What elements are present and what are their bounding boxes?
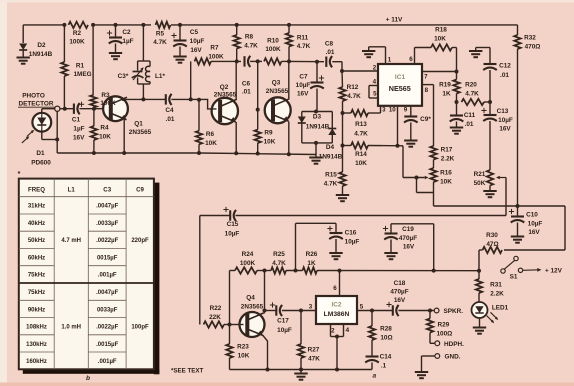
label Q3 2N3565: [266, 80, 289, 96]
svg-text:C15: C15: [227, 221, 239, 228]
svg-text:C18: C18: [394, 280, 406, 287]
svg-text:b: b: [86, 375, 90, 382]
label Q2 2N3565: [214, 84, 237, 99]
label R7 100K: [208, 45, 224, 61]
svg-text:4.7K: 4.7K: [244, 43, 258, 50]
svg-text:10K: 10K: [238, 353, 250, 360]
svg-text:2N3565: 2N3565: [214, 92, 237, 99]
svg-text:+ 11V: + 11V: [386, 17, 403, 24]
svg-text:1µF: 1µF: [73, 126, 84, 133]
wire: Q4 emitter down: [263, 335, 268, 370]
label C10 10uF 16V: [526, 212, 542, 237]
label C17 10uF: [277, 318, 292, 335]
wire: R7 to Q2 collector node: [211, 59, 241, 63]
svg-text:6: 6: [409, 56, 413, 63]
wire: Q1 collector line: [123, 98, 166, 100]
svg-text:4: 4: [373, 79, 377, 86]
wire: Q3 emitter to ground rail: [288, 122, 290, 154]
svg-text:3: 3: [309, 304, 313, 311]
resistor R28: [369, 311, 375, 356]
label L1*: [155, 73, 165, 80]
svg-text:40kHz: 40kHz: [28, 221, 45, 227]
pin 3 of IC1: [382, 107, 386, 114]
svg-text:R26: R26: [306, 251, 318, 258]
wire: LED to ground: [479, 318, 481, 327]
label R28 10 ohm: [380, 326, 392, 342]
wire: R11 to collector node: [288, 47, 290, 62]
wire: C19 to ground: [390, 240, 392, 253]
label R21 50K: [474, 171, 486, 187]
transistor Q3: [265, 97, 291, 123]
resistor R22: [204, 321, 232, 327]
svg-text:10µF: 10µF: [498, 117, 513, 124]
svg-text:10µF: 10µF: [190, 38, 205, 45]
svg-text:PHOTO: PHOTO: [22, 93, 45, 100]
wire: Q1 collector up: [122, 99, 124, 101]
wire: rail to R11: [288, 25, 290, 33]
wire: C10 node line: [434, 206, 566, 250]
wire: Q4 collector up: [263, 271, 267, 314]
svg-text:R23: R23: [237, 344, 249, 351]
svg-text:2.2K: 2.2K: [490, 291, 504, 298]
label R5 4.7K: [153, 31, 167, 47]
wire: R10 to Q3 collector node: [282, 59, 292, 63]
resistor R19: [453, 72, 459, 105]
ground below C11: [450, 128, 463, 134]
label R10 100K: [265, 38, 281, 54]
label R32 470 ohm: [524, 35, 540, 51]
resistor R9: [255, 110, 261, 154]
svg-text:75kHz: 75kHz: [28, 273, 45, 279]
diode D3: [298, 117, 306, 124]
wire: C1 to Q1 base: [80, 107, 103, 111]
component value table (FREQ / L1 / C3 / C9): [19, 179, 160, 375]
label PHOTO DETECTOR: [18, 93, 55, 108]
svg-text:9: 9: [404, 107, 408, 114]
label R25 4.7K: [272, 251, 286, 267]
ground below R21: [483, 191, 496, 197]
label C2 1uF: [122, 29, 133, 45]
svg-text:R1: R1: [76, 63, 85, 70]
capacitor C9: [404, 117, 418, 123]
resistor R3: [90, 95, 96, 108]
svg-text:D4: D4: [326, 144, 335, 151]
capacitor C12: [483, 64, 497, 70]
diode D2: [19, 44, 27, 51]
svg-text:16V: 16V: [528, 229, 540, 236]
wire: C11 to ground: [456, 122, 458, 128]
light arrows into D1: [22, 130, 34, 143]
wire: R14 line to pot wiper: [368, 144, 425, 180]
capacitor C15: [223, 207, 236, 221]
R16 wiper arrow: [417, 176, 434, 193]
svg-text:10K: 10K: [264, 139, 276, 146]
wire: rail to R3: [92, 25, 94, 95]
resistor R10: [264, 58, 282, 64]
svg-text:R17: R17: [441, 147, 453, 154]
svg-text:C14: C14: [380, 354, 392, 361]
svg-text:10K: 10K: [355, 160, 367, 167]
label C4 .01: [165, 107, 174, 123]
svg-text:Q1: Q1: [134, 121, 143, 128]
capacitor C11: [450, 102, 464, 122]
label C9*: [420, 116, 431, 123]
svg-text:47Ω: 47Ω: [486, 241, 498, 248]
capacitor C14: [365, 357, 379, 363]
svg-text:R9: R9: [264, 130, 273, 137]
ground below amplifier: [294, 374, 307, 380]
svg-text:.1: .1: [381, 363, 387, 370]
ground at pin 1: [362, 47, 375, 57]
svg-text:R28: R28: [380, 326, 392, 333]
resistor R30: [479, 247, 565, 253]
svg-text:D3: D3: [313, 114, 322, 121]
svg-text:+ 12V: + 12V: [545, 268, 563, 275]
wire: C13 to R21: [489, 121, 491, 170]
pin 2 of IC1: [342, 65, 378, 72]
svg-text:10µF: 10µF: [345, 239, 360, 246]
pin 2 and pin 4 of IC2: [331, 324, 350, 370]
label R8 4.7K: [244, 34, 258, 50]
svg-text:C3: C3: [103, 187, 111, 194]
resistor R2: [69, 22, 89, 28]
wire: supply line to switch: [317, 269, 479, 273]
label Q4 2N3565: [241, 295, 264, 311]
svg-text:.01: .01: [500, 72, 509, 79]
wire: C2 to ground: [115, 44, 117, 53]
svg-text:10µF: 10µF: [296, 82, 311, 89]
label Q1 2N3565: [129, 121, 152, 137]
svg-text:R32: R32: [524, 35, 536, 42]
svg-text:16V: 16V: [394, 297, 406, 304]
svg-text:C6: C6: [242, 81, 251, 88]
svg-text:LM386N: LM386N: [324, 311, 350, 318]
label R11 4.7K: [297, 35, 311, 51]
label R6 10K: [205, 131, 217, 147]
svg-text:C11: C11: [464, 112, 476, 119]
pin 5 of IC2: [357, 304, 393, 313]
svg-text:R8: R8: [245, 34, 254, 41]
svg-text:R2: R2: [73, 30, 82, 37]
svg-text:C9: C9: [136, 187, 144, 194]
label R16 10K: [440, 170, 452, 186]
svg-text:1.0 mH: 1.0 mH: [61, 325, 81, 331]
wire: C4 to Q2 base: [171, 97, 216, 109]
svg-text:R31: R31: [490, 282, 502, 289]
svg-text:Q4: Q4: [246, 295, 255, 302]
resistor R8: [234, 35, 240, 49]
wire: C19 rail: [391, 224, 434, 271]
svg-text:R27: R27: [308, 347, 320, 354]
svg-text:16V: 16V: [403, 244, 415, 251]
wire: R32 to C10 node: [516, 49, 520, 208]
pin 9 of IC1: [404, 106, 411, 116]
terminal HDPH: [435, 341, 464, 348]
label C5 10uF 16V: [190, 29, 205, 54]
svg-text:1N914B: 1N914B: [29, 51, 53, 58]
wire: rail to R8: [236, 25, 238, 35]
label C11 .01: [464, 112, 476, 128]
wire: rail to D2: [22, 25, 24, 43]
resistor R14: [341, 113, 369, 149]
pin 3 of IC2: [309, 304, 313, 311]
svg-text:75kHz: 75kHz: [28, 290, 45, 296]
svg-text:470µF: 470µF: [390, 289, 408, 296]
svg-text:4.7K: 4.7K: [465, 91, 479, 98]
svg-text:100K: 100K: [69, 39, 85, 46]
label R30 47 ohm: [486, 232, 498, 248]
label R22 22K: [209, 305, 222, 321]
svg-text:R22: R22: [210, 305, 222, 312]
svg-text:10: 10: [389, 107, 396, 114]
wire: C8 to pin2 node: [332, 62, 344, 73]
svg-text:2.2K: 2.2K: [441, 156, 455, 163]
label a: [372, 373, 376, 380]
svg-text:220pF: 220pF: [131, 238, 149, 244]
wire: Q3 collector up: [288, 61, 290, 99]
svg-text:*SEE TEXT: *SEE TEXT: [171, 368, 204, 375]
resistor R25: [271, 267, 286, 273]
svg-text:4.7 mH: 4.7 mH: [61, 238, 81, 244]
label R24 100K: [240, 251, 256, 267]
capacitor C10: [509, 206, 524, 223]
svg-text:R12: R12: [347, 84, 359, 91]
potentiometer R21: [487, 170, 493, 191]
svg-text:Q3: Q3: [272, 80, 281, 87]
svg-text:.0047µF: .0047µF: [96, 204, 118, 210]
wire: C14 to bottom line: [371, 363, 373, 370]
wire: R25/R26 node to C16: [296, 223, 337, 270]
svg-text:16V: 16V: [190, 47, 202, 54]
svg-text:47K: 47K: [308, 356, 320, 363]
label R17 2.2K: [441, 147, 455, 163]
wire: R7 feedback drop: [190, 61, 192, 99]
svg-text:IC2: IC2: [332, 302, 342, 309]
label C13 10uF 16V: [497, 108, 513, 133]
pin 10 of IC1: [389, 106, 398, 146]
svg-text:C17: C17: [277, 318, 289, 325]
svg-text:10Ω: 10Ω: [380, 335, 392, 342]
wire: C9 to ground: [410, 123, 412, 141]
svg-text:100Ω: 100Ω: [437, 331, 453, 338]
svg-text:3: 3: [382, 107, 386, 114]
wire: C7 to limiter: [314, 89, 318, 114]
ground below C10: [511, 237, 524, 243]
label C6 .01: [242, 81, 251, 96]
ground below C16: [329, 253, 342, 259]
capacitor C19: [383, 226, 398, 240]
svg-text:470Ω: 470Ω: [525, 44, 541, 51]
capacitor C6: [245, 56, 251, 67]
svg-text:a: a: [372, 373, 376, 380]
wire: bottom ground line: [230, 368, 373, 374]
label C18 470uF 16V: [390, 280, 408, 304]
wire: D1 top to input line: [41, 109, 43, 113]
svg-text:C8: C8: [325, 41, 334, 48]
svg-text:31kHz: 31kHz: [28, 204, 45, 210]
label R19 1K: [439, 82, 451, 98]
label C15 10uF: [225, 221, 240, 238]
svg-text:1N914B: 1N914B: [306, 124, 330, 131]
wire: C12 to R20 node: [489, 70, 491, 102]
svg-text:.01: .01: [166, 116, 175, 123]
svg-text:10K: 10K: [440, 179, 452, 186]
svg-text:L1*: L1*: [155, 73, 165, 80]
svg-text:50kHz: 50kHz: [28, 238, 45, 244]
label C19 470uF 16V: [399, 226, 417, 251]
resistor R7: [195, 58, 212, 64]
switch S1: [501, 256, 523, 273]
svg-text:60kHz: 60kHz: [28, 256, 45, 262]
svg-text:5: 5: [360, 304, 364, 311]
svg-text:C10: C10: [526, 212, 538, 219]
wire: input line to C1: [42, 107, 73, 111]
svg-text:R16: R16: [440, 170, 452, 177]
svg-text:10µF: 10µF: [277, 327, 292, 334]
pin 1 of IC1: [369, 47, 392, 64]
label R1 1MEG: [73, 63, 91, 79]
ground below C19: [384, 253, 397, 259]
resistor R15: [339, 146, 345, 195]
svg-text:C3*: C3*: [118, 73, 129, 80]
svg-text:C16: C16: [345, 230, 357, 237]
wire: R13 to pin 3: [368, 106, 381, 113]
wire: collector node to C8: [289, 60, 324, 64]
wire: rail to R1: [63, 25, 65, 62]
terminal SPKR: [434, 308, 463, 315]
wire: R18 to pin6/pin7: [415, 48, 457, 72]
svg-text:10K: 10K: [205, 140, 217, 147]
svg-text:16V: 16V: [73, 135, 85, 142]
svg-text:R6: R6: [206, 131, 215, 138]
wire: R20 to C12/C13 column: [484, 100, 492, 104]
wire: C10 to ground: [517, 223, 519, 237]
pin 8 of IC1: [422, 85, 434, 146]
resistor R31: [476, 271, 482, 303]
wire: limiter to ground: [315, 143, 317, 157]
label R4 10K: [99, 125, 111, 141]
svg-text:R30: R30: [486, 232, 498, 239]
svg-text:C12: C12: [499, 63, 511, 70]
svg-text:R18: R18: [435, 27, 447, 34]
wire: D2 to ground: [22, 50, 24, 57]
label R20 4.7K: [465, 82, 479, 98]
svg-text:D2: D2: [37, 42, 46, 49]
svg-text:R15: R15: [325, 172, 337, 179]
diode D4: [328, 129, 336, 136]
resistor R11: [286, 33, 292, 47]
wire: rail to tank: [138, 25, 150, 61]
pin 6 of IC1: [409, 48, 414, 65]
pin 7 of IC1: [422, 70, 459, 81]
label R27 47K: [308, 347, 321, 363]
capacitor C1: [74, 102, 84, 115]
label b: [86, 375, 90, 382]
wire: R3 to base node: [93, 108, 95, 109]
svg-text:.01: .01: [242, 89, 251, 96]
svg-text:NE565: NE565: [389, 84, 411, 93]
wire: R8 to collector node: [236, 49, 238, 62]
wire: limiter loop: [302, 112, 333, 145]
terminal GND: [435, 354, 461, 361]
label R18 10K: [434, 27, 447, 43]
label D3 1N914B: [306, 114, 330, 131]
ground above C12: [469, 48, 482, 58]
label C16 10uF: [345, 230, 360, 246]
svg-text:SPKR.: SPKR.: [444, 308, 464, 315]
R21 wiper arrow: [496, 176, 506, 216]
label D1 PD600: [31, 150, 51, 167]
wire: R30 to switch node: [477, 250, 481, 273]
label R2 100K: [69, 30, 85, 46]
resistor R20: [462, 99, 485, 105]
svg-text:.0022µF: .0022µF: [96, 238, 118, 244]
ground below limiter: [309, 158, 322, 164]
wire: C18 to speaker terminal: [398, 309, 434, 313]
svg-text:4: 4: [345, 327, 349, 334]
label D4 1N914B: [319, 144, 343, 161]
inductor L1: [146, 61, 151, 84]
svg-text:R29: R29: [438, 322, 450, 329]
svg-text:D1: D1: [36, 150, 45, 157]
svg-text:DETECTOR: DETECTOR: [18, 101, 53, 108]
ground below C2: [109, 53, 122, 59]
svg-text:R5: R5: [156, 31, 165, 38]
label R26 1K: [306, 251, 318, 267]
svg-text:4.7K: 4.7K: [153, 39, 167, 46]
svg-text:C9*: C9*: [420, 116, 431, 123]
svg-text:R21: R21: [474, 171, 486, 178]
resistor R27: [298, 311, 304, 370]
svg-text:100K: 100K: [265, 46, 281, 53]
wire: volume wiper audio line: [200, 215, 506, 217]
label *SEE TEXT: [171, 368, 204, 375]
svg-text:1MEG: 1MEG: [73, 71, 91, 78]
resistor R26: [303, 267, 318, 273]
svg-text:R20: R20: [465, 82, 477, 89]
wire: ground to C12: [476, 48, 490, 64]
wire: C6 to Q3 base node: [250, 59, 262, 63]
svg-text:2N3565: 2N3565: [266, 88, 289, 95]
svg-text:0033µF: 0033µF: [97, 307, 118, 313]
svg-text:10K: 10K: [434, 36, 446, 43]
resistor R13: [343, 110, 369, 116]
resistor R1: [61, 62, 67, 76]
asterisk mark: [18, 171, 21, 178]
svg-text:.0015µF: .0015µF: [96, 342, 118, 348]
svg-text:.0022µF: .0022µF: [96, 325, 118, 331]
svg-text:4.7K: 4.7K: [272, 260, 286, 267]
label R3 100K: [100, 92, 116, 107]
pin 4 and pin 5 of IC1 (jumper): [369, 79, 378, 99]
svg-text:50K: 50K: [474, 180, 486, 187]
svg-text:16V: 16V: [297, 91, 309, 98]
svg-text:10K: 10K: [99, 134, 111, 141]
wire: rail corner to R32: [517, 25, 519, 35]
wire: base node to R24: [229, 271, 231, 325]
svg-text:2: 2: [331, 328, 335, 335]
capacitor C8: [326, 56, 332, 67]
wire: audio line down to R22: [199, 216, 201, 325]
svg-text:R14: R14: [355, 151, 367, 158]
svg-text:C19: C19: [402, 226, 414, 233]
capacitor C3 (variable): [132, 61, 144, 84]
label R9 10K: [264, 130, 276, 146]
svg-text:R13: R13: [355, 121, 367, 128]
transistor Q2: [212, 98, 238, 124]
svg-text:1µF: 1µF: [122, 38, 133, 45]
svg-text:10µF: 10µF: [225, 231, 240, 238]
